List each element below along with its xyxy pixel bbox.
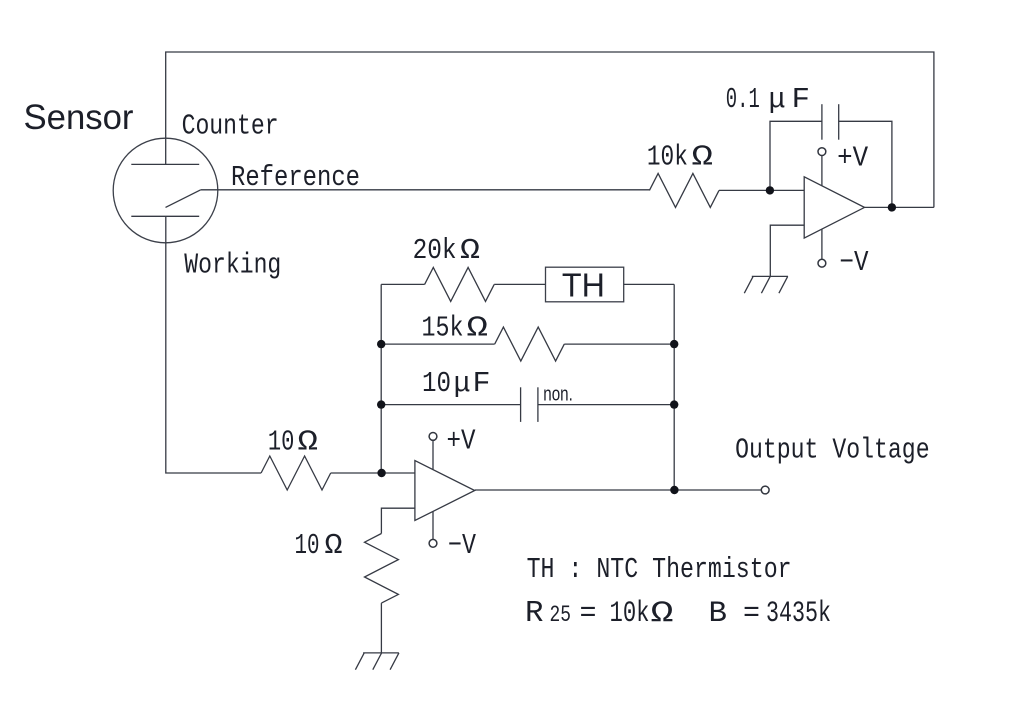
svg-text:Sensor: Sensor: [24, 98, 134, 137]
svg-text:25: 25: [550, 602, 572, 628]
U2 power rail line +V to -V: [432, 440, 434, 539]
resistor R 10 Ohm (gain, vertical): [365, 534, 399, 604]
pin: U2 -V: [429, 539, 437, 547]
wire: U2 output to output terminal: [475, 489, 762, 491]
svg-text:10: 10: [295, 529, 320, 562]
svg-text:Counter: Counter: [182, 110, 279, 143]
resistor R 15kOhm: [495, 327, 565, 361]
svg-text:Ω: Ω: [651, 597, 674, 631]
node: right bus / output: [670, 486, 678, 494]
svg-text:20k: 20k: [413, 234, 457, 267]
svg-text:0.1: 0.1: [726, 83, 760, 116]
resistor R 10kOhm (input of upper op-amp): [649, 173, 719, 207]
wire: 10 ohm resistor to summing node and op-amp input: [331, 472, 415, 474]
wire: U2 inverting input to 10 ohm gain resistor: [381, 508, 415, 533]
wire: 10k resistor to inverting input of upper op-amp: [719, 189, 804, 191]
node: U2 summing node: [377, 469, 385, 477]
svg-text:Reference: Reference: [231, 161, 360, 194]
capacitor C 0.1uF left plate: [821, 104, 823, 140]
svg-text:15k: 15k: [422, 311, 464, 344]
middle network left vertical bus: [380, 284, 382, 473]
svg-text:non.: non.: [543, 383, 573, 405]
wire: 10uF right plate to right bus: [538, 404, 674, 406]
svg-text:=: =: [743, 597, 760, 630]
svg-text:3435k: 3435k: [766, 597, 831, 631]
svg-text:F: F: [792, 83, 811, 116]
svg-text:+V: +V: [837, 141, 869, 174]
wire: top branch to 20k resistor: [381, 283, 424, 285]
power pin and terminal open circles: [429, 148, 826, 547]
ground symbol (U1 non-inverting input): [744, 276, 788, 293]
op-amp U2 (transimpedance amplifier): [415, 461, 475, 521]
svg-text:Output Voltage: Output Voltage: [735, 434, 930, 467]
wire: counter electrode to top rail, across top, down right side: [166, 52, 934, 207]
sensor body circle: [113, 138, 218, 243]
svg-text:+V: +V: [447, 425, 476, 458]
svg-text:Ω: Ω: [467, 311, 489, 344]
svg-text:TH : NTC Thermistor: TH : NTC Thermistor: [527, 553, 792, 586]
wire: 15k branch left: [381, 343, 495, 345]
capacitor C 10uF left plate: [520, 387, 522, 422]
junction dots: [377, 186, 896, 494]
node: left bus / 10uF: [377, 400, 385, 408]
svg-text:−V: −V: [840, 246, 869, 279]
wire: gain resistor to ground: [380, 603, 382, 653]
svg-text:10: 10: [268, 426, 295, 459]
pin: U1 +V: [818, 148, 826, 156]
svg-text:F: F: [473, 367, 491, 400]
wire: 20k resistor to TH box: [494, 283, 545, 285]
wire: TH box to right vertical bus: [624, 283, 675, 285]
svg-text:Ω: Ω: [325, 529, 343, 562]
resistor R 20kOhm: [425, 267, 495, 301]
U1 power rail line +V to -V: [821, 156, 823, 259]
svg-text:Ω: Ω: [460, 234, 480, 267]
svg-text:TH: TH: [562, 266, 605, 303]
svg-text:Working: Working: [184, 249, 281, 282]
svg-text:μ: μ: [769, 83, 786, 116]
svg-text:Ω: Ω: [298, 426, 319, 459]
resistor R 10 Ohm (input of lower op-amp): [261, 456, 331, 490]
middle network right vertical bus: [673, 284, 675, 490]
thermistor TH box: [546, 267, 624, 302]
svg-text:10k: 10k: [610, 597, 650, 631]
svg-text:−V: −V: [448, 529, 476, 562]
capacitor C 10uF right plate: [537, 387, 539, 422]
wire: non-inverting input of U1 to ground: [770, 225, 804, 276]
node: feedback summing node U1: [766, 186, 774, 194]
sensor counter electrode plate: [131, 163, 199, 165]
svg-text:=: =: [580, 597, 597, 630]
svg-text:B: B: [709, 597, 728, 631]
node: right bus / 10uF: [670, 400, 678, 408]
svg-text:Ω: Ω: [692, 140, 714, 173]
op-amp U1 (potentiostat control amplifier): [804, 177, 864, 238]
svg-text:10: 10: [422, 367, 451, 400]
wire: 10uF branch left: [381, 404, 520, 406]
node: left bus / 15k: [377, 340, 385, 348]
capacitor C 0.1uF right plate: [838, 104, 840, 140]
node: right bus / 15k: [670, 340, 678, 348]
wire: working electrode down the left side: [166, 216, 261, 473]
wire: 0.1uF right plate to output node: [839, 121, 892, 207]
sensor working electrode plate: [131, 215, 199, 217]
node: U1 output: [888, 203, 896, 211]
wire: feedback node up to 0.1uF left plate: [770, 121, 822, 190]
pin: U1 -V: [818, 259, 826, 267]
wire: reference to 10k resistor: [201, 189, 650, 192]
svg-text:10k: 10k: [647, 140, 688, 173]
wire: 15k resistor to right bus: [564, 343, 674, 345]
wire: U1 output to right rail: [865, 206, 934, 208]
pin: U2 +V: [429, 433, 437, 441]
ground symbol (U2 gain resistor): [355, 653, 399, 670]
svg-text:μ: μ: [454, 367, 471, 400]
sensor reference electrode slanted lead: [166, 190, 201, 208]
svg-text:R: R: [525, 596, 544, 631]
terminal: output voltage: [761, 486, 769, 494]
